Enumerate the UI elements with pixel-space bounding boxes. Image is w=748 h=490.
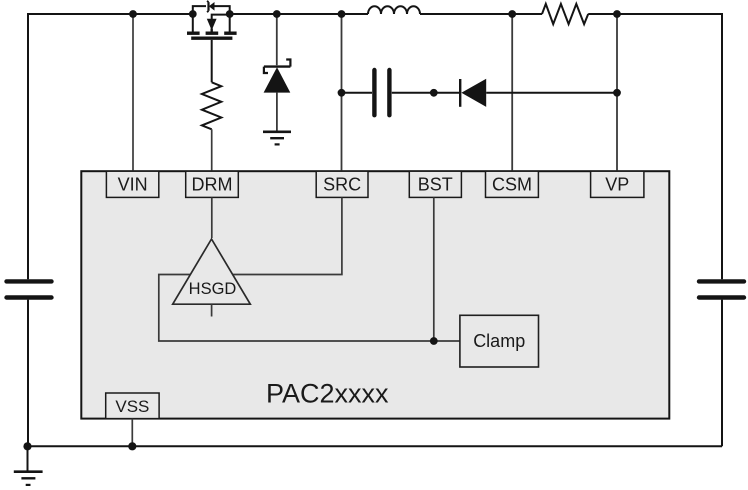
Clamp block [460,315,539,367]
zener diode D2 [264,15,291,132]
svg-text:Clamp: Clamp [473,331,525,351]
resistor R2 current sense [542,4,588,24]
node zener tap [273,10,281,18]
pin box BST [409,171,461,197]
node VP tap [613,10,621,18]
inductor L1 [368,6,420,14]
wire top rail right segment [420,13,542,15]
ground G2 below zener [263,132,291,145]
pin box SRC [316,171,368,197]
wire BST pin into chip [433,197,435,341]
capacitor C1 left bulk cap [7,281,52,297]
svg-text:VP: VP [605,175,629,195]
svg-text:VSS: VSS [115,397,149,416]
capacitor C3 right bulk cap [699,281,744,297]
node SRC-C2 junction [338,89,346,97]
node SRC tap [338,10,346,18]
label PAC2xxxx [266,379,389,409]
svg-text:SRC: SRC [323,175,361,195]
node D3-VP junction [613,89,621,97]
wire bottom rail [27,445,722,447]
capacitor C2 series cap [374,70,389,115]
op-amp U1 HSGD driver triangle [173,239,251,317]
wire top rail middle segment [230,13,368,15]
diode D3 bootstrap diode [434,79,617,107]
wire VSS pin to bottom rail [131,419,133,447]
ground G1 bottom left [14,446,43,485]
svg-text:CSM: CSM [492,175,532,195]
svg-text:DRM: DRM [192,175,233,195]
svg-text:VIN: VIN [118,175,148,195]
wire CSM tap vertical [511,15,513,171]
wire C2 to BST node [392,92,434,94]
node VSS junction [128,442,136,450]
node BST-clamp junction [430,337,438,345]
svg-text:HSGD: HSGD [189,280,237,298]
wire DRM pin to HSGD apex [211,197,213,238]
resistor R1 gate resistor [202,82,221,129]
svg-text:BST: BST [418,175,453,195]
wire VIN tap [132,15,134,171]
node Q1 source [226,10,234,18]
transistor Q1 MOSFET with body diode [187,1,237,83]
node BST-C2-D3 junction [430,89,438,97]
wire R1 to DRM pin [211,129,213,171]
wire SRC node to capacitor C2 [342,92,373,94]
wire VP tap vertical [616,15,618,171]
pin box VIN [106,171,158,197]
node Q1 drain [189,10,197,18]
IC block U2 PAC2xxxx body [81,171,669,418]
wire left rail lower segment [27,300,29,447]
svg-text:PAC2xxxx: PAC2xxxx [266,379,389,409]
node ground junction [23,442,31,450]
wire top rail left segment [28,14,193,279]
pin box VP [591,171,644,197]
wire right rail lower segment [721,300,723,447]
wire SRC pin into chip [233,197,342,274]
wire SRC tap vertical [341,15,343,171]
pin box VSS [106,393,159,419]
pin box DRM [186,171,239,197]
wire top rail far-right segment and right rail [588,14,722,279]
node CSM tap [508,10,516,18]
node VIN tap [129,10,137,18]
pin box CSM [486,171,539,197]
wire HSGD left side loop to clamp node [159,275,460,342]
